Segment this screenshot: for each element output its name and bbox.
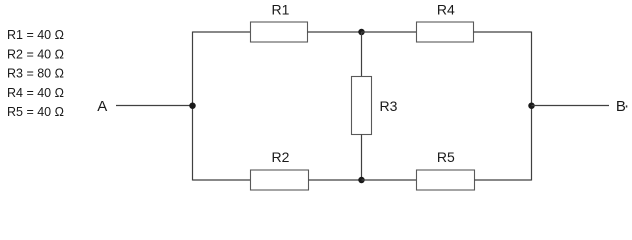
svg-text:R3 = 80 Ω: R3 = 80 Ω xyxy=(7,67,64,81)
junction bottom middle node xyxy=(358,177,365,184)
wire R2 to bottom middle junction xyxy=(309,179,362,181)
svg-text:A: A xyxy=(97,98,107,115)
svg-text:R1 = 40 Ω: R1 = 40 Ω xyxy=(7,28,64,42)
wire right vertical xyxy=(531,32,533,181)
junction top middle node xyxy=(358,29,365,36)
svg-text:R5 = 40 Ω: R5 = 40 Ω xyxy=(7,105,64,119)
junction right node xyxy=(528,102,535,109)
svg-text:R3: R3 xyxy=(380,98,398,114)
svg-text:B: B xyxy=(616,98,626,115)
wire R5 to bottom right corner xyxy=(475,179,532,181)
wire top rail left segment xyxy=(193,31,251,33)
resistor R5 xyxy=(417,170,475,190)
svg-text:R4 = 40 Ω: R4 = 40 Ω xyxy=(7,86,64,100)
svg-text:R4: R4 xyxy=(437,1,455,17)
wire R4 to top right corner xyxy=(474,31,532,33)
stray mark right of B xyxy=(626,105,628,107)
wire bottom rail left segment xyxy=(193,179,251,181)
junction left node xyxy=(189,102,196,109)
svg-text:R2 = 40 Ω: R2 = 40 Ω xyxy=(7,47,64,61)
wire right junction to B terminal xyxy=(532,105,610,107)
wire A terminal to left junction xyxy=(116,105,193,107)
svg-text:R5: R5 xyxy=(437,149,455,165)
wire R1 to top middle junction xyxy=(308,31,362,33)
svg-text:R2: R2 xyxy=(272,149,290,165)
wire top middle junction to R4 xyxy=(362,31,417,33)
wire R3 to bottom middle junction xyxy=(361,135,363,181)
wire top middle junction down to R3 xyxy=(361,32,363,77)
resistor R1 xyxy=(251,22,308,42)
wire left vertical xyxy=(192,32,194,181)
wire bottom middle junction to R5 xyxy=(362,179,417,181)
resistor R2 xyxy=(251,170,309,190)
resistor R3 xyxy=(352,77,372,135)
svg-text:R1: R1 xyxy=(272,1,290,17)
resistor R4 xyxy=(417,22,474,42)
